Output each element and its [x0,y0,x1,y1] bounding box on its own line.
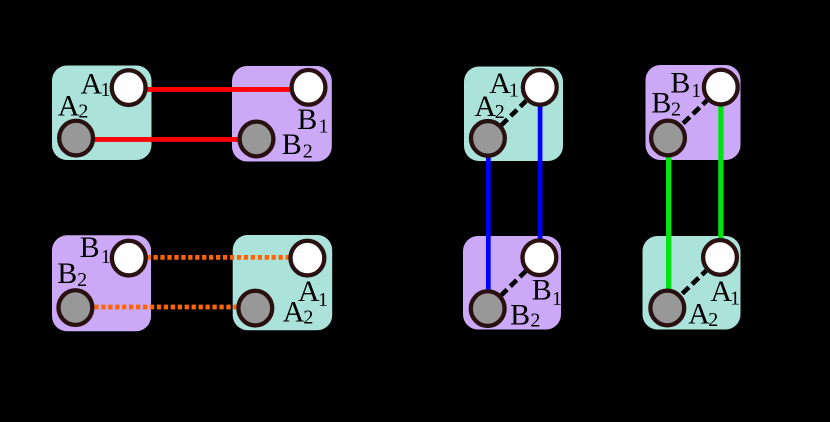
svg-text:B: B [532,274,552,307]
svg-text:2: 2 [530,310,540,332]
svg-text:1: 1 [552,288,562,310]
svg-text:B: B [282,128,302,161]
svg-text:2: 2 [671,98,681,120]
svg-text:B: B [80,231,100,264]
svg-text:1: 1 [691,80,701,102]
svg-text:B: B [651,87,671,120]
svg-text:2: 2 [78,101,88,123]
svg-text:A: A [58,90,80,123]
svg-text:B: B [510,299,530,332]
svg-text:2: 2 [495,101,505,123]
svg-text:1: 1 [101,79,111,101]
svg-text:B: B [57,257,77,290]
svg-text:B: B [670,66,690,99]
svg-text:A: A [474,90,496,123]
svg-text:1: 1 [730,287,740,309]
svg-text:A: A [283,295,305,328]
svg-text:2: 2 [708,309,718,331]
svg-text:1: 1 [101,246,111,268]
svg-text:1: 1 [509,79,519,101]
svg-text:A: A [688,297,710,330]
svg-text:2: 2 [303,141,313,163]
svg-text:1: 1 [319,115,329,137]
svg-text:2: 2 [77,269,87,291]
svg-text:A: A [81,67,103,100]
svg-text:2: 2 [303,306,313,328]
svg-text:1: 1 [318,289,328,311]
